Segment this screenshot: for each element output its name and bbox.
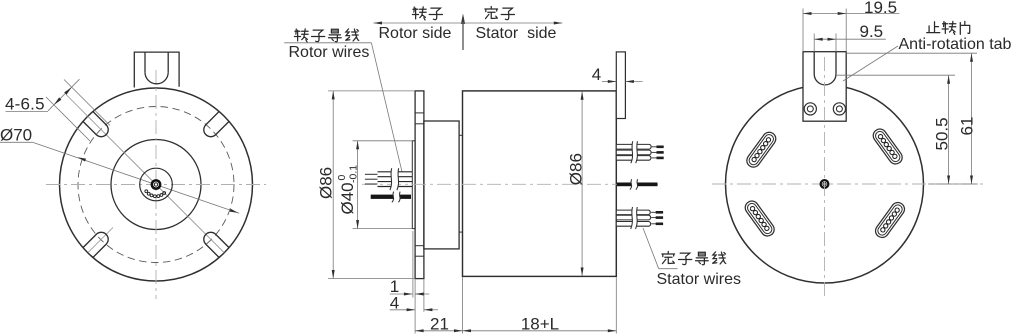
left view hub circle	[111, 140, 201, 230]
left view horizontal centerline	[46, 184, 266, 186]
dimension Ø86 stator line	[581, 91, 583, 276]
svg-text:Ø70: Ø70	[0, 126, 32, 145]
rotor lead wires	[365, 173, 378, 175]
label 转子	[412, 7, 426, 20]
connector J4 bottom-right	[873, 200, 907, 240]
dimension 21 line	[415, 330, 462, 332]
left view pin circles	[163, 192, 166, 195]
svg-text:Rotor side: Rotor side	[379, 25, 452, 42]
dimension 19.5 line	[803, 13, 899, 15]
right view horizontal centerline	[712, 183, 985, 185]
right view outer circle	[726, 85, 924, 283]
dimension 4-6.5 leader underline	[6, 111, 49, 113]
dimension Ø86 flange ext top	[328, 90, 415, 92]
stator wires leader	[643, 228, 659, 269]
left view center shaft black ring	[151, 179, 162, 190]
dimension Ø86 flange line	[332, 91, 334, 279]
flange hole section lines	[415, 112, 424, 114]
svg-text:-0.1: -0.1	[348, 165, 360, 183]
dimension 50.5 line	[948, 75, 950, 184]
middle view centerline	[362, 183, 660, 185]
stator middle thick wire	[617, 183, 658, 187]
label rotor wires underline	[284, 42, 371, 44]
left view bolt circle dashed Ø70	[78, 107, 234, 263]
right view center dot	[820, 179, 830, 189]
svg-text:Rotor wires: Rotor wires	[289, 44, 370, 61]
svg-text:50.5: 50.5	[933, 117, 952, 150]
dimension 18+L line	[463, 330, 617, 332]
stator lower bundle leads	[651, 211, 656, 213]
dimension 19.5 ext lines	[802, 9, 804, 52]
stator lower bundle	[616, 210, 650, 215]
dimension Ø40 ext top	[353, 140, 413, 142]
svg-text:Ø40: Ø40	[338, 182, 357, 214]
label 转子导线	[294, 29, 308, 42]
dimension Ø70 underline	[0, 141, 33, 143]
svg-text:18+L: 18+L	[521, 315, 559, 334]
stator lower bundle break	[631, 207, 638, 229]
svg-text:Stator side: Stator side	[476, 25, 557, 42]
label 止转片	[927, 22, 940, 33]
step disc lines	[459, 134, 462, 136]
left view slot axis line NW-SE	[66, 95, 224, 253]
dimension 9.5 ext lines	[813, 34, 815, 52]
dimension 4-6.5 extension line A	[64, 80, 110, 126]
dimension Ø70 leader line	[33, 142, 240, 213]
stator upper bundle	[616, 144, 651, 149]
rotor thick wire	[371, 195, 411, 199]
connector J3 bottom-left	[743, 198, 777, 238]
dimension 9.5 line	[814, 38, 886, 40]
dimension Ø40 text	[336, 165, 360, 215]
left view inner circle	[140, 168, 173, 201]
right view anti-rotation tab	[803, 52, 846, 122]
rotor flat cable	[378, 171, 413, 173]
svg-text:4-6.5: 4-6.5	[5, 95, 45, 114]
bottom extension lines	[412, 231, 414, 298]
left view anti-rotation tab	[134, 52, 179, 87]
dimension Ø40 line	[357, 141, 359, 229]
dimension 61 ext top	[846, 52, 977, 54]
rotor hub plate Ø40x1	[412, 141, 415, 229]
dimension 50.5 ext top	[836, 74, 955, 76]
dimension 61 line	[971, 53, 973, 184]
svg-text:Ø86: Ø86	[567, 153, 586, 185]
stator anti-rotation tab side view	[616, 52, 625, 119]
dimension 4-6.5 dim line	[48, 79, 80, 111]
anti-rotation tab leader	[843, 46, 898, 81]
dimension Ø70 arrows	[78, 157, 87, 161]
svg-text:Stator wires: Stator wires	[657, 271, 741, 288]
left view slot axis line SW segment	[88, 228, 113, 253]
svg-text:19.5: 19.5	[864, 0, 897, 17]
rotor-stator divider arrow	[462, 17, 464, 50]
rotor body	[424, 121, 459, 249]
svg-text:Anti-rotation tab: Anti-rotation tab	[899, 36, 1012, 53]
dimension 4-6.5 extension line B	[46, 97, 90, 141]
slot SW	[83, 229, 111, 257]
stator upper bundle break	[631, 141, 638, 163]
right view vertical centerline	[824, 57, 826, 299]
dimension Ø86 flange ext bottom	[328, 278, 415, 280]
dimension 1 lines	[390, 293, 413, 295]
label 定子	[485, 7, 498, 19]
slot NW	[83, 111, 111, 139]
dimension 4 (tab) lines	[602, 81, 616, 83]
connector J1 top-right	[871, 126, 905, 166]
stator middle wire break	[630, 179, 638, 189]
left view outer circle	[60, 88, 253, 281]
dimension bottom reference extension line	[928, 183, 978, 185]
dimension Ø40 ext bottom	[353, 228, 413, 230]
dimension 4 lines	[390, 309, 415, 311]
left view vertical centerline	[155, 70, 157, 299]
slot NE	[201, 111, 229, 139]
svg-text:4: 4	[592, 65, 601, 84]
rotor thick wire break	[392, 192, 400, 203]
stator main body	[463, 91, 617, 277]
flange plate	[415, 91, 424, 279]
dimension 4-6.5 arrows	[64, 87, 72, 95]
svg-text:21: 21	[430, 315, 449, 334]
label 定子导线	[662, 252, 675, 264]
rotor wires leader	[371, 43, 402, 172]
slot SE	[201, 229, 229, 257]
svg-text:Ø86: Ø86	[317, 167, 336, 199]
svg-text:0: 0	[336, 175, 348, 181]
connector J2 top-left	[744, 130, 778, 170]
rotor cable break	[390, 168, 399, 190]
rotor-stator header line	[374, 22, 563, 24]
svg-text:61: 61	[958, 117, 977, 136]
stator upper bundle leads	[652, 146, 657, 148]
svg-text:9.5: 9.5	[860, 22, 884, 41]
